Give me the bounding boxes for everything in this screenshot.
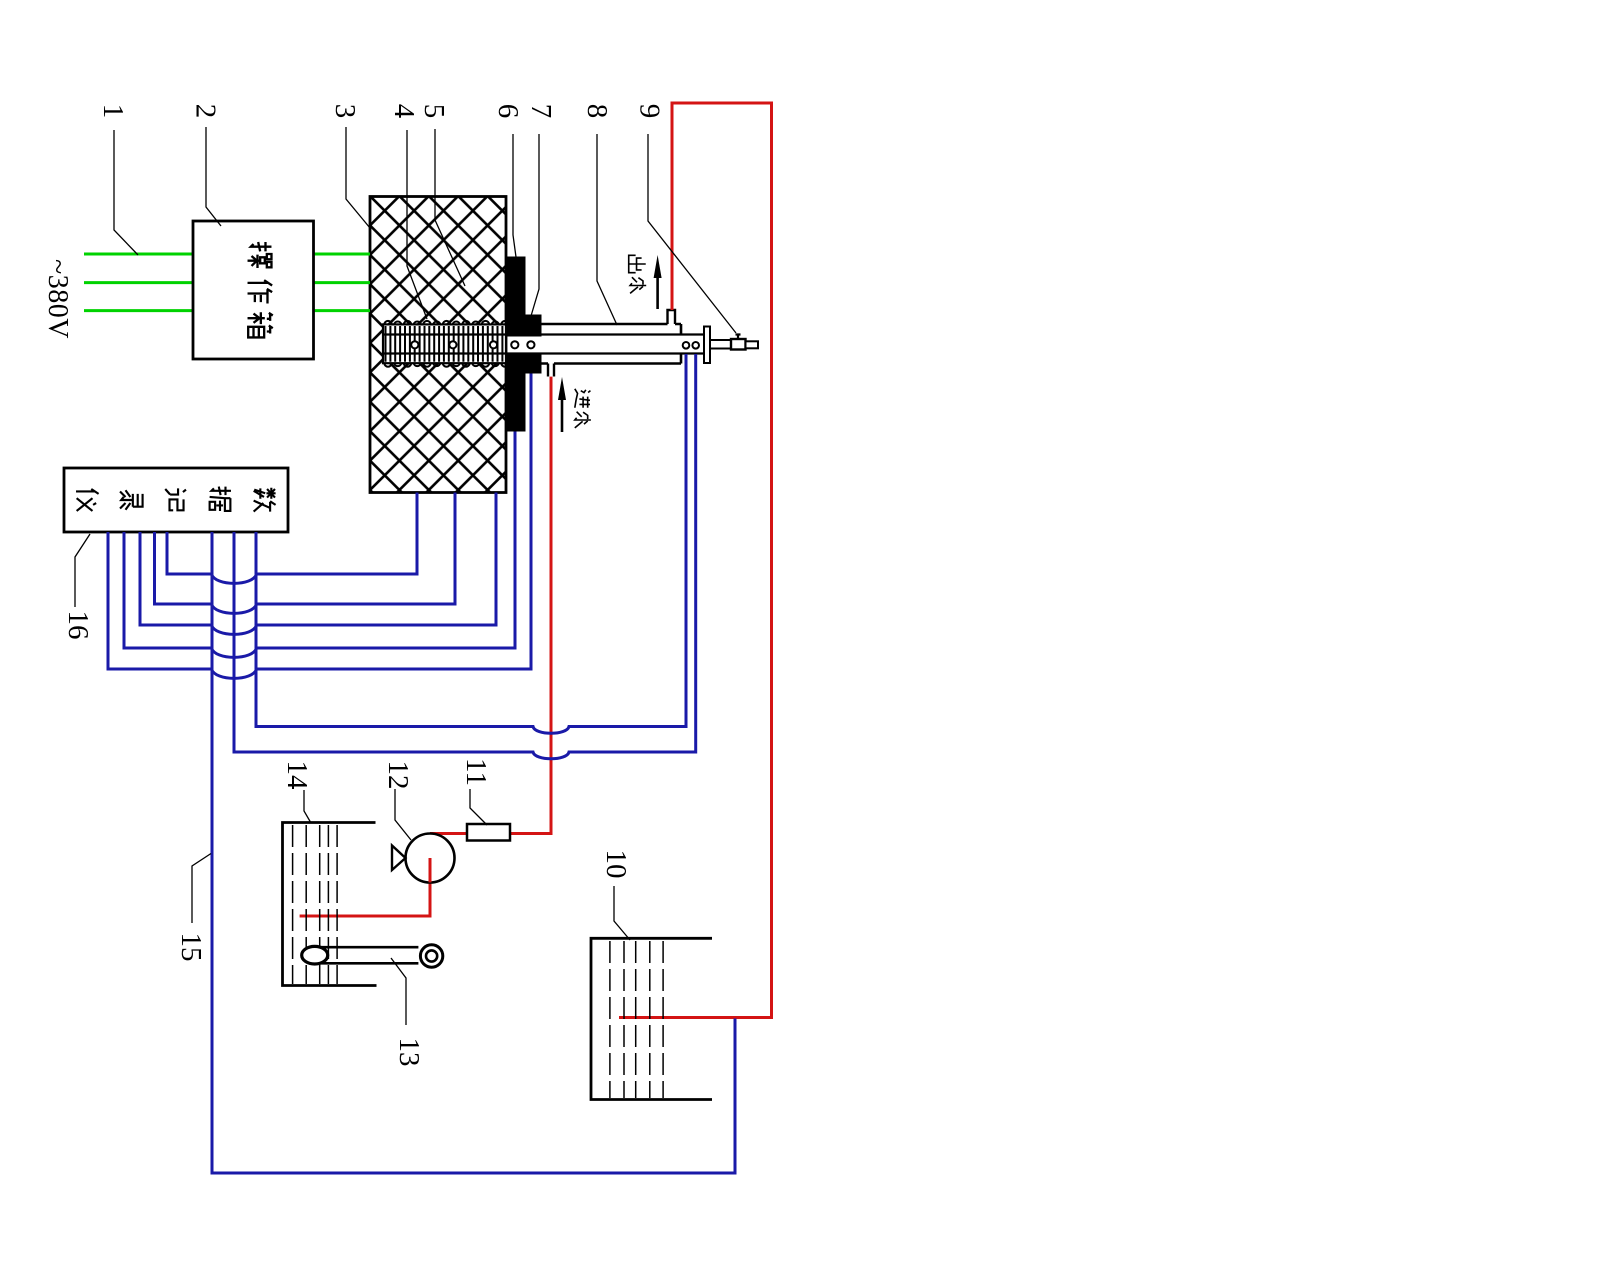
operation box 2 xyxy=(193,221,314,359)
svg-text:~380V: ~380V xyxy=(42,259,73,339)
leader 3 xyxy=(346,127,370,228)
red pump to tank 14 xyxy=(300,858,430,916)
operation box text 操作箱 xyxy=(248,242,273,337)
inlet arrow xyxy=(561,400,564,432)
outlet label 出水 xyxy=(629,255,646,272)
svg-text:14: 14 xyxy=(281,761,313,791)
leader 8 xyxy=(597,134,617,325)
sensor bar 6 (black) xyxy=(507,257,526,337)
outlet arrow xyxy=(656,278,659,309)
leader 5 xyxy=(435,129,465,286)
red pipe loop (outlet to tank 10) xyxy=(619,103,772,1018)
wire w4 xyxy=(155,493,456,614)
leader 10 xyxy=(614,886,630,940)
tank 10 xyxy=(591,938,712,1099)
leader 6 xyxy=(513,134,516,257)
heater 13 tube xyxy=(315,947,418,963)
thermocouple holes xyxy=(411,341,534,348)
svg-text:15: 15 xyxy=(175,933,207,962)
clamp 7 (black) xyxy=(526,315,542,337)
coil turns xyxy=(384,321,508,367)
part number labels xyxy=(62,104,666,1067)
svg-text:6: 6 xyxy=(492,104,524,119)
tube body 8 outline xyxy=(542,324,682,364)
pump outlet pipe (red, inside pump) xyxy=(429,858,432,883)
wire w5 xyxy=(167,493,417,584)
leader 11 xyxy=(470,789,487,825)
wire w8 xyxy=(256,354,686,733)
flowmeter 11 xyxy=(467,824,510,841)
leader lines xyxy=(75,127,736,1025)
wire w2 xyxy=(124,432,515,658)
leader 16 xyxy=(75,534,90,607)
wire w1 xyxy=(108,374,531,679)
recorder text 数据记录仪 (right to left) xyxy=(76,487,276,512)
pump 12 xyxy=(406,834,455,883)
heater 13 bulb xyxy=(302,946,328,964)
leader 15 xyxy=(192,854,211,924)
svg-text:12: 12 xyxy=(382,761,414,790)
leader 13 xyxy=(391,958,406,1025)
tank 10 water lines xyxy=(610,941,663,1098)
leader 7 xyxy=(531,134,539,316)
leader 4 xyxy=(407,130,427,319)
flange disc 9 area xyxy=(704,327,710,364)
wire w7 xyxy=(234,354,696,759)
outlet stub on tube top xyxy=(668,310,676,324)
svg-text:1: 1 xyxy=(97,104,129,119)
leader 1 xyxy=(114,130,138,255)
rod xyxy=(710,340,731,349)
svg-text:11: 11 xyxy=(460,758,492,786)
svg-text:7: 7 xyxy=(525,104,557,119)
inlet label 进水 xyxy=(575,389,591,408)
leader 12 xyxy=(395,789,411,840)
thermocouple wires (blue) xyxy=(108,354,735,1173)
svg-text:13: 13 xyxy=(393,1038,425,1067)
pump inlet triangle xyxy=(392,846,406,871)
svg-text:5: 5 xyxy=(418,104,450,119)
valve 9 xyxy=(731,339,746,350)
svg-text:8: 8 xyxy=(581,104,613,119)
inlet notch on tube bottom xyxy=(548,364,554,377)
leader 9 xyxy=(648,134,736,333)
svg-text:10: 10 xyxy=(600,850,632,879)
svg-text:9: 9 xyxy=(634,104,666,119)
heater coil assembly 4/5 white backing xyxy=(383,324,506,363)
three-phase wires 1 (green) xyxy=(84,254,370,311)
wire w6 (to tank 10) xyxy=(212,532,735,1173)
svg-text:2: 2 xyxy=(190,104,222,119)
tank 14 water lines xyxy=(293,825,338,984)
svg-text:3: 3 xyxy=(329,104,361,119)
heater 13 ring xyxy=(420,945,442,967)
insulation block 3 (crosshatched) xyxy=(370,197,506,493)
red inlet pipe from pump xyxy=(430,377,551,834)
data recorder box 16 xyxy=(64,468,288,532)
wire w3 xyxy=(140,493,496,635)
bore wall lines of tube through coil and bar xyxy=(383,335,704,354)
svg-text:4: 4 xyxy=(388,104,420,119)
tank 14 xyxy=(283,823,377,986)
end cap bolt holes xyxy=(683,342,699,349)
leader 2 xyxy=(206,127,221,226)
svg-text:16: 16 xyxy=(62,611,94,640)
leader 14 xyxy=(304,790,311,823)
